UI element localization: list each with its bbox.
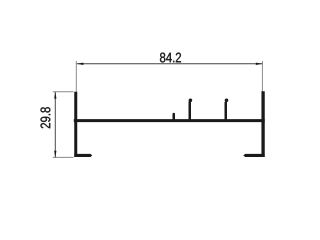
dimension 29.8 arrow top [54, 92, 56, 99]
dimension 84.2 line [77, 63, 263, 65]
profile right wall [261, 91, 264, 157]
dimension 84.2 extension line right [261, 61, 263, 92]
dimension 29.8 arrow bottom [54, 151, 56, 158]
dimension 84.2 arrow left [77, 63, 84, 65]
profile left foot tip [90, 154, 92, 157]
dimension 29.8 line [54, 92, 56, 157]
profile hook 2 tip [225, 99, 229, 103]
profile right foot [245, 154, 265, 157]
dimension 84.2 arrow right [256, 63, 263, 65]
dimension 29.8 label [41, 107, 51, 128]
profile hook 2 stem [225, 102, 228, 120]
profile small rib [173, 114, 176, 120]
profile hook 1 stem [189, 102, 192, 121]
dimension 84.2 label [160, 53, 181, 63]
dimension 29.8 extension line bottom [53, 156, 74, 158]
profile right foot tip [243, 154, 245, 157]
profile hook 1 tip [189, 99, 193, 103]
profile web [74, 119, 265, 122]
profile left foot [74, 154, 90, 157]
profile left wall [74, 92, 77, 157]
dimension 29.8 extension line top [53, 91, 74, 93]
dimension 84.2 extension line left [75, 61, 77, 92]
